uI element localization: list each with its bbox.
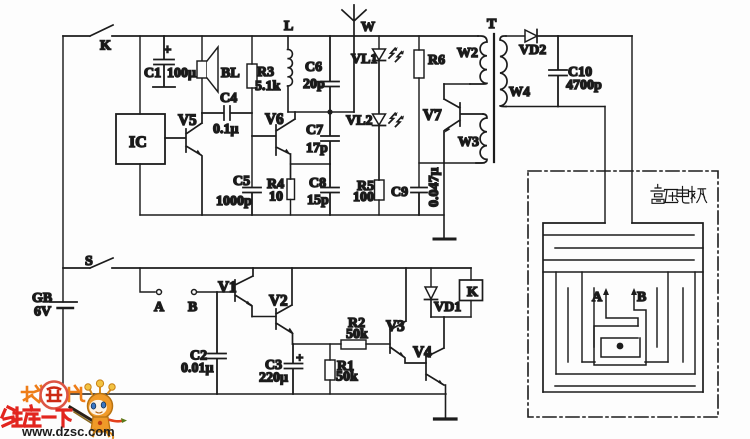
svg-text:K: K bbox=[467, 285, 478, 300]
switch S bbox=[63, 254, 471, 269]
svg-text:5.1k: 5.1k bbox=[255, 79, 281, 94]
electrode top bus bbox=[543, 223, 703, 392]
svg-text:T: T bbox=[487, 17, 497, 32]
electrode finger 3 bbox=[581, 272, 583, 362]
svg-text:B: B bbox=[188, 300, 197, 315]
electrode finger 1 bbox=[555, 272, 557, 374]
capacitor C1 bbox=[144, 36, 196, 87]
electrode bottom line 2 bbox=[556, 373, 695, 375]
wire left rail bbox=[62, 36, 64, 394]
watermark text 找芯片 bbox=[22, 386, 84, 402]
svg-text:+: + bbox=[296, 350, 303, 365]
capacitor C3 bbox=[259, 344, 303, 394]
watermark text 维库一下 bbox=[2, 406, 71, 426]
svg-text:IC: IC bbox=[129, 134, 147, 151]
node A terminal bbox=[140, 268, 165, 315]
svg-text:100μ: 100μ bbox=[167, 66, 196, 81]
capacitor C8 bbox=[307, 164, 339, 215]
wire to electrode right bbox=[631, 36, 633, 223]
svg-text:W: W bbox=[361, 20, 375, 35]
svg-text:B: B bbox=[637, 290, 646, 305]
electrode finger 6 bbox=[667, 272, 669, 362]
wire IC bottom bbox=[139, 164, 141, 215]
switch K bbox=[63, 25, 478, 54]
resistor R2 bbox=[341, 316, 390, 349]
transistor V3 bbox=[386, 268, 426, 363]
transistor V4 bbox=[413, 317, 444, 386]
electrode bus line 3 bbox=[555, 247, 703, 249]
svg-text:0.1μ: 0.1μ bbox=[213, 122, 239, 137]
svg-text:R6: R6 bbox=[428, 53, 445, 68]
watermark mascot bbox=[85, 380, 127, 438]
label 高压电极 bbox=[651, 185, 707, 204]
wire emitter to C7 bbox=[291, 163, 331, 165]
svg-text:BL: BL bbox=[221, 66, 240, 81]
resistor R5 bbox=[353, 179, 384, 215]
capacitor C7 bbox=[306, 112, 339, 164]
transistor V6 bbox=[252, 111, 295, 179]
svg-text:C1: C1 bbox=[144, 66, 161, 81]
svg-text:10: 10 bbox=[269, 190, 283, 205]
svg-text:17p: 17p bbox=[306, 141, 328, 156]
battery GB bbox=[32, 291, 77, 320]
svg-text:W3: W3 bbox=[458, 135, 479, 150]
resistor R3 bbox=[247, 36, 281, 187]
watermark magnifier bbox=[41, 382, 68, 409]
svg-text:6V: 6V bbox=[34, 305, 51, 320]
transistor V7 bbox=[423, 84, 483, 163]
svg-text:50k: 50k bbox=[346, 327, 368, 342]
svg-text:L: L bbox=[284, 19, 293, 34]
resistor R1 bbox=[325, 344, 358, 394]
wire W4 bottom line bbox=[506, 106, 605, 108]
svg-text:C6: C6 bbox=[305, 60, 322, 75]
wire emitter line y163 bbox=[419, 162, 484, 164]
wire bottom rail bbox=[63, 393, 446, 395]
wire V1e to V2b bbox=[252, 316, 276, 318]
svg-text:A: A bbox=[154, 300, 165, 315]
transistor V5 bbox=[165, 112, 202, 215]
capacitor C4 bbox=[202, 91, 252, 137]
diode VD2 bbox=[506, 30, 632, 59]
svg-text:VD1: VD1 bbox=[434, 300, 461, 315]
svg-text:www.dzsc.com: www.dzsc.com bbox=[21, 424, 115, 439]
svg-text:C4: C4 bbox=[220, 91, 237, 106]
node junction dot bbox=[327, 109, 332, 114]
electrode finger 7 bbox=[682, 288, 684, 362]
electrode finger 2 bbox=[567, 288, 569, 362]
transformer T core bbox=[487, 17, 497, 162]
svg-text:VL2: VL2 bbox=[346, 114, 372, 129]
capacitor C6 bbox=[303, 36, 339, 112]
electrode bottom line 1 bbox=[582, 361, 668, 363]
watermark url bbox=[21, 424, 115, 439]
svg-text:C7: C7 bbox=[306, 123, 323, 138]
node B arrow bbox=[594, 288, 646, 365]
svg-text:C9: C9 bbox=[391, 185, 408, 200]
transistor V2 bbox=[269, 268, 294, 344]
electrode bus line 2 bbox=[544, 234, 694, 236]
LED VL1 bbox=[351, 36, 404, 114]
relay K bbox=[460, 268, 483, 317]
svg-text:20p: 20p bbox=[303, 77, 325, 92]
svg-text:W4: W4 bbox=[509, 85, 530, 100]
svg-text:C5: C5 bbox=[233, 174, 250, 189]
wire IC top bbox=[139, 36, 141, 114]
electrode enclosure dash-dot border bbox=[528, 171, 718, 417]
electrode bottom line 4 bbox=[543, 391, 703, 393]
svg-text:R3: R3 bbox=[257, 65, 274, 80]
svg-text:100: 100 bbox=[353, 190, 374, 205]
svg-text:W2: W2 bbox=[457, 46, 478, 61]
svg-text:V3: V3 bbox=[386, 318, 405, 335]
ground top bbox=[434, 163, 455, 239]
capacitor C2 bbox=[181, 292, 226, 394]
IC U1 bbox=[116, 114, 165, 164]
inductor L bbox=[284, 19, 293, 112]
watermark pen bbox=[70, 407, 98, 426]
wire collector to W2 bbox=[444, 83, 470, 85]
diode VD1 bbox=[425, 268, 462, 317]
winding W2 bbox=[457, 36, 487, 84]
node B terminal bbox=[188, 290, 235, 316]
svg-text:0.01μ: 0.01μ bbox=[181, 361, 214, 376]
transistor V1 bbox=[218, 268, 253, 317]
wire to electrode left bbox=[604, 107, 606, 224]
ground bottom bbox=[435, 385, 457, 419]
svg-text:15p: 15p bbox=[307, 193, 329, 208]
svg-text:K: K bbox=[100, 39, 111, 54]
svg-text:VL1: VL1 bbox=[351, 52, 377, 67]
svg-text:0.047μ: 0.047μ bbox=[427, 168, 442, 208]
wire top bottom rail bbox=[140, 214, 444, 216]
speaker BL bbox=[197, 36, 240, 113]
electrode finger 4 bbox=[593, 288, 595, 347]
svg-text:A: A bbox=[592, 290, 603, 305]
svg-text:1000p: 1000p bbox=[216, 194, 252, 209]
antenna W bbox=[342, 5, 375, 112]
svg-text:V6: V6 bbox=[265, 111, 284, 128]
electrode finger 8 bbox=[694, 272, 696, 374]
electrode inner loop bbox=[601, 338, 640, 357]
capacitor C10 bbox=[549, 36, 602, 107]
svg-text:VD2: VD2 bbox=[519, 43, 546, 58]
node A arrow bbox=[592, 288, 638, 326]
capacitor C5 bbox=[216, 174, 261, 215]
electrode bus line 5 bbox=[543, 271, 703, 273]
electrode finger 5 bbox=[656, 288, 658, 347]
svg-text:C8: C8 bbox=[309, 176, 326, 191]
wire node line bbox=[288, 111, 354, 113]
svg-text:V7: V7 bbox=[423, 107, 442, 124]
electrode bottom line 3 bbox=[555, 385, 695, 387]
svg-text:V1: V1 bbox=[218, 279, 237, 296]
svg-text:S: S bbox=[85, 254, 93, 269]
resistor R6 bbox=[414, 36, 445, 187]
electrode center dot bbox=[617, 343, 624, 350]
svg-text:V5: V5 bbox=[178, 112, 197, 129]
winding W3 bbox=[458, 114, 487, 163]
svg-text:220μ: 220μ bbox=[259, 371, 288, 386]
electrode bus line 4 bbox=[544, 259, 694, 261]
capacitor C9 bbox=[391, 168, 442, 216]
wire y344 bbox=[293, 343, 342, 345]
svg-text:+: + bbox=[164, 43, 172, 58]
wire y317 bbox=[431, 316, 471, 318]
winding W4 bbox=[500, 36, 530, 107]
LED VL2 bbox=[346, 112, 404, 180]
svg-text:4700p: 4700p bbox=[566, 78, 602, 93]
svg-text:V2: V2 bbox=[269, 293, 288, 310]
svg-text:V4: V4 bbox=[413, 344, 432, 361]
resistor R4 bbox=[267, 177, 295, 215]
svg-text:50k: 50k bbox=[336, 370, 358, 385]
